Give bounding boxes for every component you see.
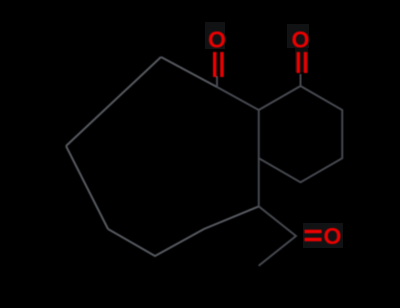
- svg-text:O: O: [324, 223, 342, 249]
- svg-text:O: O: [292, 26, 310, 52]
- svg-text:O: O: [208, 26, 226, 52]
